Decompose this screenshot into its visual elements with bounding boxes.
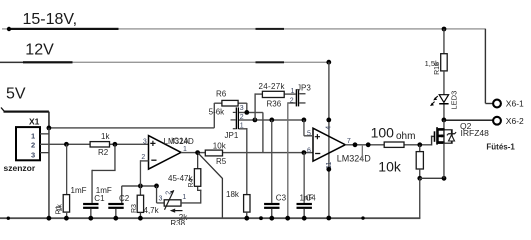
node op-amp2 pin5 junction [302,118,307,123]
connector X6-1 [493,100,501,108]
node pot pin3 junction [154,184,159,189]
wire X1 pin1 stub [40,133,49,134]
svg-text:JP1: JP1 [225,131,239,140]
node 15-18V left junction [7,27,11,31]
resistor R4 45-47k [197,153,198,169]
connector JP3 [296,89,297,106]
resistor R5 [205,150,222,156]
svg-text:5V: 5V [6,86,26,103]
svg-text:LM324D: LM324D [337,154,372,164]
svg-text:15-18V,: 15-18V, [23,11,78,28]
wire to X6-1 [485,29,486,104]
wire stub below output [362,145,363,161]
wire 12V rail [0,62,23,64]
wire R2 right down to C1 [114,144,115,170]
svg-text:X6-1: X6-1 [506,98,524,108]
wire 15-18V rail [2,28,486,29]
svg-text:C4: C4 [306,194,317,203]
svg-text:1k: 1k [101,132,110,141]
svg-text:R4: R4 [188,178,195,187]
svg-text:3: 3 [31,151,35,160]
node R3 top junction [138,184,143,189]
svg-text:2: 2 [166,191,173,195]
resistor 18k [244,195,250,213]
wire JP1 pin3 net [239,112,263,113]
node 12V rail end junction [326,60,331,65]
svg-text:1: 1 [31,132,35,141]
svg-text:C2: C2 [119,194,130,203]
svg-text:3: 3 [159,195,163,202]
resistor R6 5-6k [214,103,247,104]
op-amp U1 LM324D [149,136,182,170]
svg-text:R36: R36 [267,100,282,109]
svg-text:10k: 10k [378,159,402,175]
svg-text:5-6k: 5-6k [209,107,226,116]
wire node C2/R3/pot y=185.9 [122,185,157,186]
svg-text:2: 2 [31,140,35,149]
resistor R36 24-27k [254,93,255,120]
capacitor C2 [121,186,122,203]
node rail junction above R16 [442,27,447,32]
wire diagonal output down to ground [198,153,223,219]
wire JP3 pin2 down to ground [288,102,296,103]
node R36 bottom junction [253,118,258,123]
resistor R16 1,5k [443,29,444,54]
wire JP1 pin1 to 18k [239,128,248,129]
svg-text:3: 3 [143,138,147,145]
svg-text:R38: R38 [170,219,185,225]
node R1 top junction [64,142,69,147]
svg-text:R1: R1 [56,205,63,214]
wire X1 pin3 stub [40,152,49,153]
svg-text:C3: C3 [276,194,287,203]
svg-text:1mF: 1mF [71,186,87,195]
wire JP1 pin2 net [239,119,304,120]
wire pin6 down to C4 [304,153,305,203]
svg-text:3: 3 [240,105,244,112]
resistor 10k pulldown [419,145,420,152]
svg-text:2: 2 [141,154,145,161]
svg-text:R5: R5 [216,157,227,166]
node R6/JP1 pin3 junction [244,110,249,115]
svg-text:4: 4 [326,126,333,130]
node mosfet source junction [442,176,447,181]
connector X6-2 [493,117,501,125]
svg-text:szenzor: szenzor [4,163,36,173]
svg-text:LED3: LED3 [449,91,458,110]
transistor Q2 IRFZ48 [443,120,444,130]
resistor R3 [140,186,141,195]
capacitor C4 1nF [297,203,312,205]
svg-text:ohm: ohm [396,131,415,142]
wire op-amp2 output [345,144,431,145]
svg-text:R6: R6 [216,89,227,98]
connector JP1 [236,107,237,129]
svg-text:X1: X1 [29,117,40,127]
node op-amp2 pin6 junction [302,150,307,155]
svg-text:Fütés-1: Fütés-1 [486,142,515,151]
trimmer R38 2k [156,186,157,203]
wire op-amp1 pin2 [140,160,148,161]
node R2 right junction [113,142,118,147]
svg-text:R2: R2 [98,148,109,157]
resistor R2 [90,142,109,147]
led LED3 [439,95,448,103]
svg-text:18k: 18k [226,190,240,199]
svg-text:R16: R16 [434,62,441,75]
svg-text:1mF: 1mF [96,186,112,195]
wire left vertical x=48.9 down to ground [48,128,50,218]
svg-text:4,7k: 4,7k [144,206,160,215]
ground bus junction dots [7,217,10,220]
capacitor C1 [83,203,98,205]
wire drain node to X6-2 [444,120,493,121]
resistor 100 ohm [384,142,404,147]
wire 5V rail [1,108,5,112]
resistor R1 [66,144,67,194]
svg-text:IC1A: IC1A [171,136,189,145]
svg-text:6: 6 [307,147,311,154]
svg-text:IRFZ48: IRFZ48 [461,128,490,138]
node 5V junction at X1 [47,126,52,131]
node op-amp2 pin4 junctions [326,118,331,123]
svg-text:R3: R3 [131,204,138,213]
op-amp U2 LM324D [328,62,329,218]
svg-text:100: 100 [371,124,395,140]
svg-text:10k: 10k [213,141,227,150]
wire 5V feed down/right to R6 [48,112,50,128]
svg-text:24-27k: 24-27k [259,82,286,91]
wire op-amp1 output to op-amp2 pin6 [181,152,313,153]
node 10k bottom junction [417,176,422,181]
node drain junction [442,118,447,123]
wire X1 pin2 to op-amp pin3 [40,144,149,145]
node output dots [353,142,358,147]
wire right vertical to R5 wire [262,112,263,152]
svg-text:1: 1 [291,88,295,95]
wire gate jog [431,136,432,146]
svg-text:12V: 12V [25,41,54,58]
node output junction [195,150,200,155]
svg-text:X6-2: X6-2 [506,116,524,126]
ground bus [0,217,420,219]
svg-text:C1: C1 [94,194,105,203]
wire op-amp2 pin5 L [303,120,304,136]
svg-text:JP3: JP3 [297,83,311,92]
capacitor C3 [271,120,272,203]
svg-text:1: 1 [182,194,186,201]
node C3 top junction [269,118,274,123]
connector X1 [16,127,40,160]
